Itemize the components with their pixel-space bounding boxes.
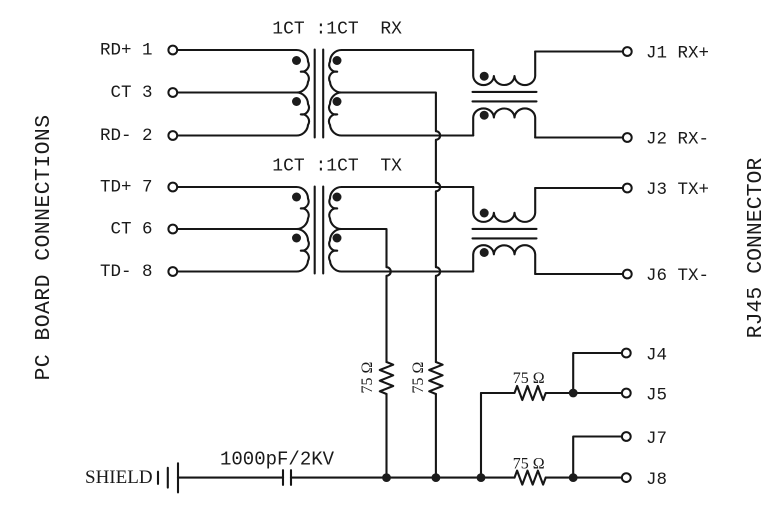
- choke L2 core: [473, 229, 537, 239]
- junction dot rail at R2: [432, 473, 441, 482]
- wire CT pin3 to T1 primary center tap: [177, 91, 296, 93]
- polarity dot T2 secondary upper: [333, 193, 342, 202]
- svg-text:75 Ω: 75 Ω: [359, 361, 376, 393]
- terminal circles: [168, 46, 631, 482]
- svg-text:SHIELD: SHIELD: [85, 467, 153, 488]
- polarity dot T2 secondary lower: [333, 234, 342, 243]
- wire T2 secondary bottom to choke L2: [342, 270, 473, 272]
- terminal pin 7: [168, 183, 177, 192]
- shield chassis symbol bars: [158, 463, 178, 492]
- choke L1 bottom winding: [473, 108, 535, 137]
- wire choke L1 to J2: [535, 136, 622, 138]
- polarity dot T1 secondary upper: [333, 56, 342, 65]
- resistor R3 75ohm horizontal: [481, 386, 573, 400]
- wire choke L2 to J3: [535, 187, 622, 189]
- polarity dot T1 primary lower: [292, 97, 301, 106]
- polarity dot choke L1 top: [480, 72, 489, 81]
- terminal pin 2: [168, 131, 177, 140]
- svg-text:CT 6: CT 6: [110, 220, 152, 240]
- transformer T2 core: [315, 187, 324, 274]
- wire junction up to J4: [573, 353, 621, 393]
- svg-text:1CT :1CT RX: 1CT :1CT RX: [272, 19, 402, 39]
- polarity dot choke L2 top: [480, 209, 489, 218]
- resistor R2 75ohm vertical: [429, 362, 442, 394]
- terminal J8: [622, 473, 631, 482]
- terminal pin 3: [168, 88, 177, 97]
- transformer T1 primary winding lower (pins 3-2): [296, 92, 309, 135]
- wire T2 secondary top to choke L2: [342, 186, 473, 188]
- junction dot rail at R3 branch: [477, 473, 486, 482]
- wire R3 junction to J5: [573, 392, 621, 394]
- polarity dot T2 primary lower: [292, 234, 301, 243]
- svg-text:PC BOARD CONNECTIONS: PC BOARD CONNECTIONS: [32, 114, 56, 380]
- wire J7 down to rail junction: [573, 437, 621, 478]
- wire T1 secondary top to choke L1: [342, 49, 473, 51]
- wire CT pin6 to T2 primary center tap: [177, 228, 296, 230]
- transformer T1 core: [315, 50, 324, 138]
- wire R1 bottom to ground rail: [385, 394, 387, 478]
- resistor R4 75ohm horizontal in rail: [515, 471, 546, 485]
- transformer T1 secondary winding lower: [329, 92, 342, 135]
- ground rail wire capacitor to R3: [291, 477, 515, 479]
- choke L1 top winding: [473, 50, 535, 85]
- svg-text:CT 3: CT 3: [110, 83, 152, 103]
- terminal J4: [622, 349, 631, 358]
- svg-text:75 Ω: 75 Ω: [513, 455, 545, 472]
- svg-text:TD- 8: TD- 8: [100, 262, 153, 282]
- transformer T2 primary winding upper (pins 7-6): [296, 187, 309, 229]
- wire T2 secondary CT down with crossover hop, to resistor R1: [342, 229, 391, 362]
- polarity dot T1 secondary lower: [333, 97, 342, 106]
- svg-text:RD+ 1: RD+ 1: [100, 41, 153, 61]
- terminal pin 8: [168, 267, 177, 276]
- svg-text:RJ45 CONNECTOR: RJ45 CONNECTOR: [744, 158, 768, 339]
- svg-text:TD+ 7: TD+ 7: [100, 178, 153, 198]
- svg-text:75 Ω: 75 Ω: [513, 370, 545, 387]
- terminal pin 6: [168, 225, 177, 234]
- svg-text:J5: J5: [646, 386, 667, 406]
- terminal J7: [622, 432, 631, 441]
- wire R4 to J8: [546, 477, 622, 479]
- svg-text:J8: J8: [646, 470, 667, 490]
- polarity dot choke L1 bottom: [480, 111, 489, 120]
- svg-text:J4: J4: [646, 346, 667, 366]
- svg-text:J6 TX-: J6 TX-: [646, 266, 709, 286]
- wire R2 bottom to ground rail: [435, 394, 437, 478]
- terminal J1: [623, 47, 632, 56]
- svg-text:75 Ω: 75 Ω: [410, 361, 427, 393]
- svg-text:1000pF/2KV: 1000pF/2KV: [220, 449, 335, 471]
- wire choke L1 to J1: [535, 50, 622, 52]
- transformer T1 secondary winding upper: [329, 50, 342, 93]
- polarity dot T2 primary upper: [292, 193, 301, 202]
- junction dot rail at J8 branch: [569, 473, 578, 482]
- junction dot J5 node: [569, 389, 578, 398]
- terminal pin 1: [168, 46, 177, 55]
- svg-text:J3 TX+: J3 TX+: [646, 180, 709, 200]
- wire RD- pin2 to T1 primary: [177, 134, 296, 136]
- terminal J3: [623, 184, 632, 193]
- polarity dot T1 primary upper: [292, 56, 301, 65]
- transformer T1 primary winding upper (pins 1-3): [296, 50, 309, 93]
- wire TD+ pin7 to T2 primary: [177, 186, 296, 188]
- wire RD+ pin1 to T1 primary: [177, 49, 296, 51]
- wire rail up to R3: [480, 393, 482, 478]
- wire choke L2 to J6: [535, 273, 622, 275]
- capacitor C1 1000pF/2KV plates: [283, 470, 291, 485]
- terminal J2: [623, 133, 632, 142]
- choke L2 top winding: [473, 187, 535, 222]
- svg-text:J1 RX+: J1 RX+: [646, 44, 709, 64]
- wire T1 secondary CT down with crossover hops, to resistor R2: [342, 93, 440, 363]
- polarity dot choke L2 bottom: [480, 248, 489, 257]
- transformer T2 secondary winding upper: [329, 187, 342, 229]
- terminal J5: [622, 389, 631, 398]
- transformer T2 secondary winding lower: [329, 229, 342, 272]
- choke L1 core: [473, 92, 537, 102]
- svg-text:1CT :1CT TX: 1CT :1CT TX: [272, 156, 402, 176]
- terminal J6: [623, 270, 632, 279]
- svg-text:J7: J7: [646, 429, 667, 449]
- choke L2 bottom winding: [473, 245, 535, 274]
- wire TD- pin8 to T2 primary: [177, 270, 296, 272]
- svg-text:J2 RX-: J2 RX-: [646, 130, 709, 150]
- transformer T2 primary winding lower (pins 6-8): [296, 229, 309, 272]
- junction dot rail at R1: [382, 473, 391, 482]
- wire shield to capacitor C1: [178, 477, 283, 479]
- wire T1 secondary bottom to choke L1: [342, 134, 473, 136]
- svg-text:RD- 2: RD- 2: [100, 126, 153, 146]
- resistor R1 75ohm vertical: [380, 362, 393, 394]
